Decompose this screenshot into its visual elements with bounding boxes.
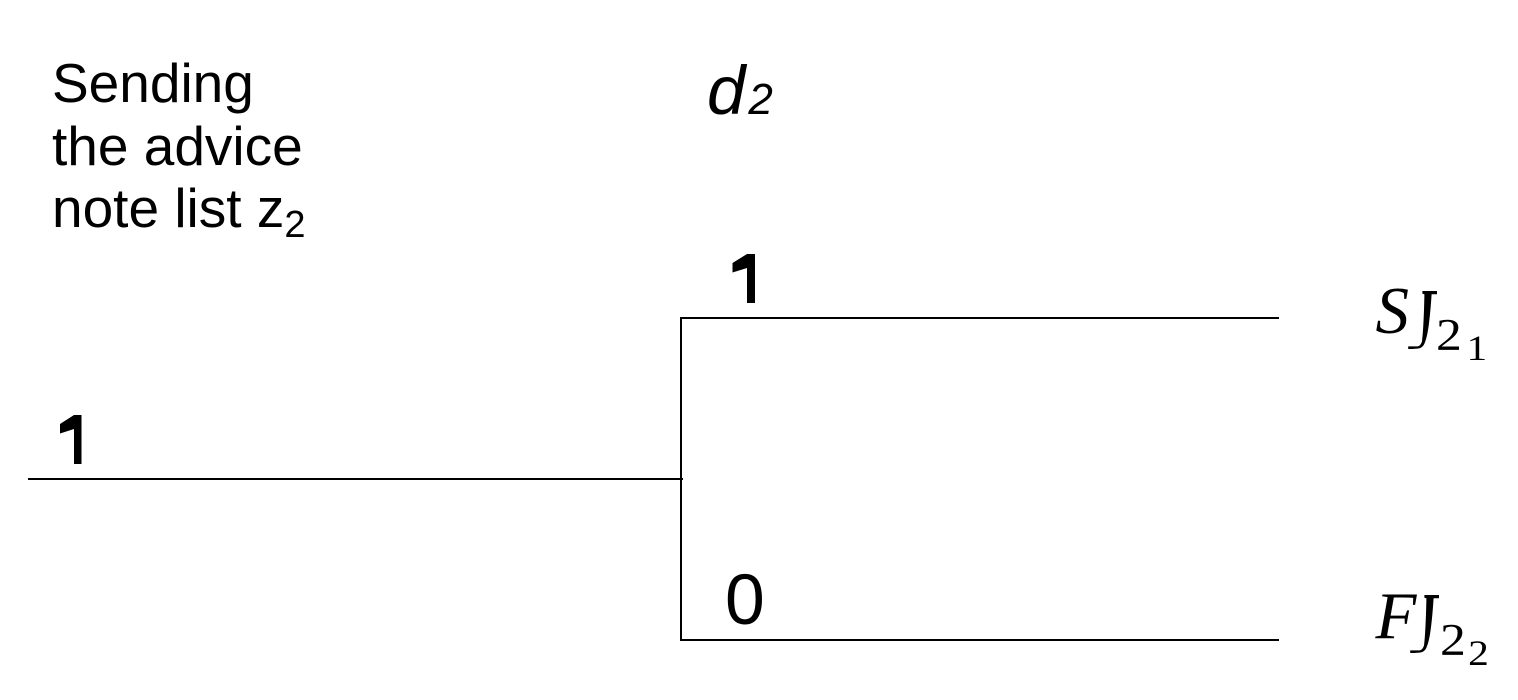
wire: vertical decision-node bar: [680, 317, 682, 641]
glyph: math-italic J of SJ label: [1400, 291, 1440, 349]
label: branch value 1 (upper): [732, 254, 755, 303]
glyph: math-italic J of FJ label: [1402, 595, 1442, 653]
label: branch value 0 (lower): [725, 565, 765, 637]
wire: root horizontal into decision node: [28, 478, 683, 480]
node label: outcome SJ_2_1: [1376, 278, 1481, 382]
wire: upper branch (d2 = 1): [680, 317, 1279, 319]
wire: lower branch (d2 = 0): [680, 639, 1279, 641]
label: probability 1 on root wire: [60, 415, 82, 464]
text: chance-node caption "Sending the advice note list z2": [52, 52, 305, 257]
label: decision variable d2: [707, 56, 773, 134]
node label: outcome FJ_2_2: [1376, 583, 1483, 687]
